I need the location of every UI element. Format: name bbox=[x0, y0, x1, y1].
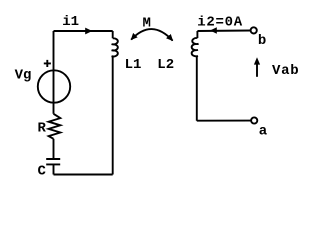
wire: right vertical of left loop bbox=[112, 56, 114, 174]
terminal a bbox=[251, 117, 257, 123]
wire: C to bottom bbox=[53, 164, 55, 174]
svg-text:R: R bbox=[38, 120, 47, 136]
svg-text:C: C bbox=[38, 164, 47, 180]
inductor L1 bbox=[112, 31, 118, 56]
plus sign bbox=[44, 60, 51, 67]
wire: R to C bbox=[53, 139, 55, 159]
svg-text:i1: i1 bbox=[62, 14, 79, 30]
svg-text:M: M bbox=[143, 16, 151, 32]
svg-text:L1: L1 bbox=[125, 57, 142, 73]
capacitor C bbox=[46, 159, 60, 164]
svg-text:a: a bbox=[259, 123, 268, 139]
svg-text:Vg: Vg bbox=[15, 68, 32, 84]
wire: top wire of right circuit bbox=[197, 30, 250, 33]
svg-text:b: b bbox=[258, 33, 266, 49]
wire: bottom wire of right circuit bbox=[197, 120, 251, 122]
wire: L2 lower vertical bbox=[196, 56, 198, 121]
svg-text:Vab: Vab bbox=[272, 63, 299, 79]
voltage arrow Vab bbox=[256, 63, 258, 77]
wire: bottom wire of left loop bbox=[54, 174, 113, 176]
mutual coupling M arc arrow bbox=[131, 29, 172, 41]
voltage source Vg bbox=[38, 70, 70, 102]
current arrow i2 bbox=[210, 27, 217, 33]
terminal b bbox=[251, 27, 257, 33]
svg-text:i2=0A: i2=0A bbox=[197, 15, 243, 31]
current arrow i1 bbox=[85, 28, 92, 35]
svg-text:L2: L2 bbox=[157, 57, 174, 73]
resistor R bbox=[49, 114, 61, 139]
inductor L2 bbox=[192, 31, 199, 56]
wire: left vertical branch bbox=[53, 31, 55, 114]
wire: top wire of left loop bbox=[54, 30, 113, 32]
